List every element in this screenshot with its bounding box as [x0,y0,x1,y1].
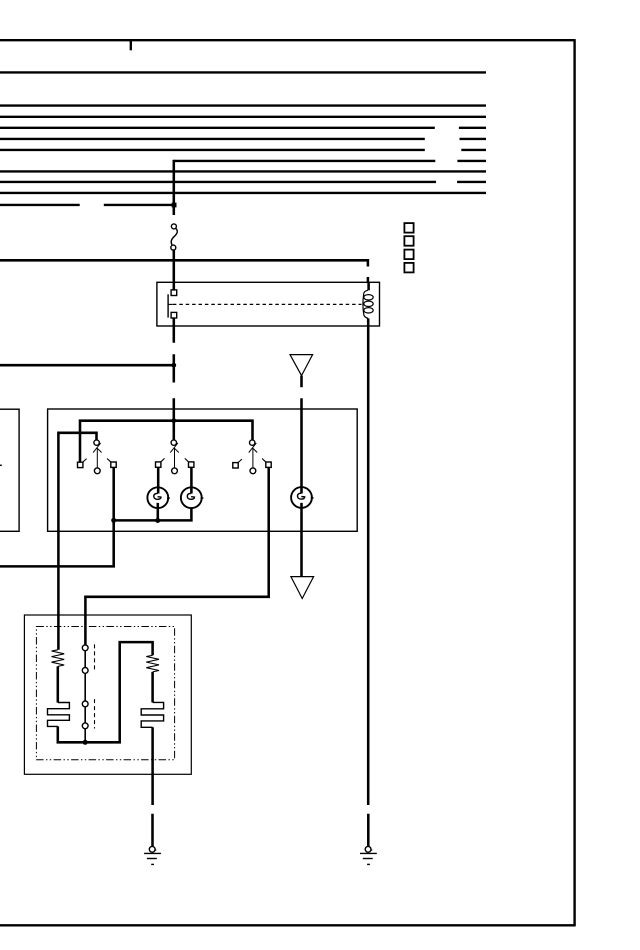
node junction y421 [171,418,176,423]
switch SW1 right slash [107,459,111,462]
connector circle 3 [82,701,88,707]
node junction bottom [83,740,88,745]
connector arrow bottom [291,577,314,599]
text box 3 [404,250,413,260]
page border right [573,39,575,925]
bottom unit inner dash-dot box [36,627,174,760]
resistor R2 [146,655,159,672]
wire y260 to relay coil [0,260,368,282]
wire relay coil to ground G2 [367,326,370,846]
left box stub [0,464,2,466]
wire branch B y433 [58,433,96,650]
bus wire y105 [0,104,486,106]
relay contact square bottom [171,312,177,318]
ground G2 [360,846,377,864]
wire SW3 right throw to bottom box [85,468,268,645]
switch SW3 left throw [233,463,238,468]
lamp L3 [291,487,314,508]
bus wire y117 [0,116,486,118]
switch SW2 right throw [189,462,194,467]
bus wire y150 [0,149,486,151]
switch SW2 right slash [185,458,189,461]
switch SW2 center contact [172,468,178,474]
lamp L2 [181,487,203,508]
switch SW3 arm and arrow [249,443,258,468]
wire R1 to C1 [57,666,60,702]
bus wire y171 [0,170,486,172]
switch SW1 left throw [78,462,83,467]
wire lamp return [114,508,192,520]
border tick mark [130,41,132,50]
relay contact square top [171,290,177,296]
switch SW3 right throw [266,462,271,467]
wire relay to main box [173,326,176,440]
relay coil stub top [367,283,370,291]
wire arrow to main box [300,376,303,409]
wire breaker to relay box [173,250,176,282]
text box 1 [404,223,413,233]
bus wire y161 elbow [174,160,486,162]
switch SW2 left throw [156,462,161,467]
connector arrow top [290,355,313,376]
switch SW1 right throw [111,462,116,467]
switch SW3 pole [250,440,255,445]
text box 2 [404,236,413,246]
relay movable contact bar [167,294,169,317]
bus wire y128 [0,127,486,129]
page border top [0,39,575,41]
relay dashed link line [173,303,362,305]
lamp L1 [147,487,169,520]
wire SW2 right throw to lamp L2 [190,467,193,493]
bottom unit outer box [24,615,191,774]
switch SW3 center contact [250,468,256,474]
connector dashed line lower [94,699,96,728]
switch SW2 arm and arrow [170,443,179,468]
ground G1 [144,846,161,864]
switch SW1 center contact [94,468,100,474]
bus wire y139 [0,138,486,140]
circuit breaker [171,224,177,250]
node junction lamp return left [111,518,116,523]
switch SW2 pole [171,440,176,445]
wire C1 to junction [58,642,153,742]
wire lamp L3 vertical [300,409,303,577]
switch SW3 right slash [262,459,266,462]
node junction y365 [171,363,176,368]
relay coil [363,290,368,318]
wire SW1 right throw down [0,467,114,566]
left partial box [0,409,19,531]
bus wire y182 [0,181,486,183]
capacitor C1 [48,703,70,727]
capacitor C2 [141,702,163,727]
wire branch A y421 [80,421,253,463]
switch SW1 pole [94,440,99,445]
bus wire y193 [0,192,486,194]
connector circle 4 [82,723,88,729]
text box 4 [404,263,413,273]
connector circle 1 [82,645,88,651]
page border bottom [0,924,576,926]
relay box [157,282,380,326]
switch SW1 arm and arrow [93,443,102,468]
bus wire y72 [0,71,486,73]
connector dashed line upper [94,644,96,671]
node junction at y205 [172,203,177,208]
switch SW1 left slash [83,459,87,462]
wire R2 to C2 [151,672,154,703]
wire vertical from elbow to breaker [173,160,176,215]
relay contact stub top [173,282,176,290]
resistor R1 [52,650,65,667]
wire C2 to ground G1 [151,727,154,846]
wire y365 [0,364,174,367]
switch SW2 left slash [161,458,165,461]
main switch box [48,409,358,531]
switch SW3 left slash [238,459,242,462]
wire between connector circles [84,651,86,743]
relay actuator tick [168,303,173,305]
relay coil stub bottom [367,318,370,326]
wire SW2 left throw to lamp L1 [157,467,160,493]
connector circle 2 [82,668,88,674]
relay contact stub bottom [173,318,176,326]
bus wire y205 broken [0,204,175,206]
node junction lamp1 bottom [155,518,160,523]
